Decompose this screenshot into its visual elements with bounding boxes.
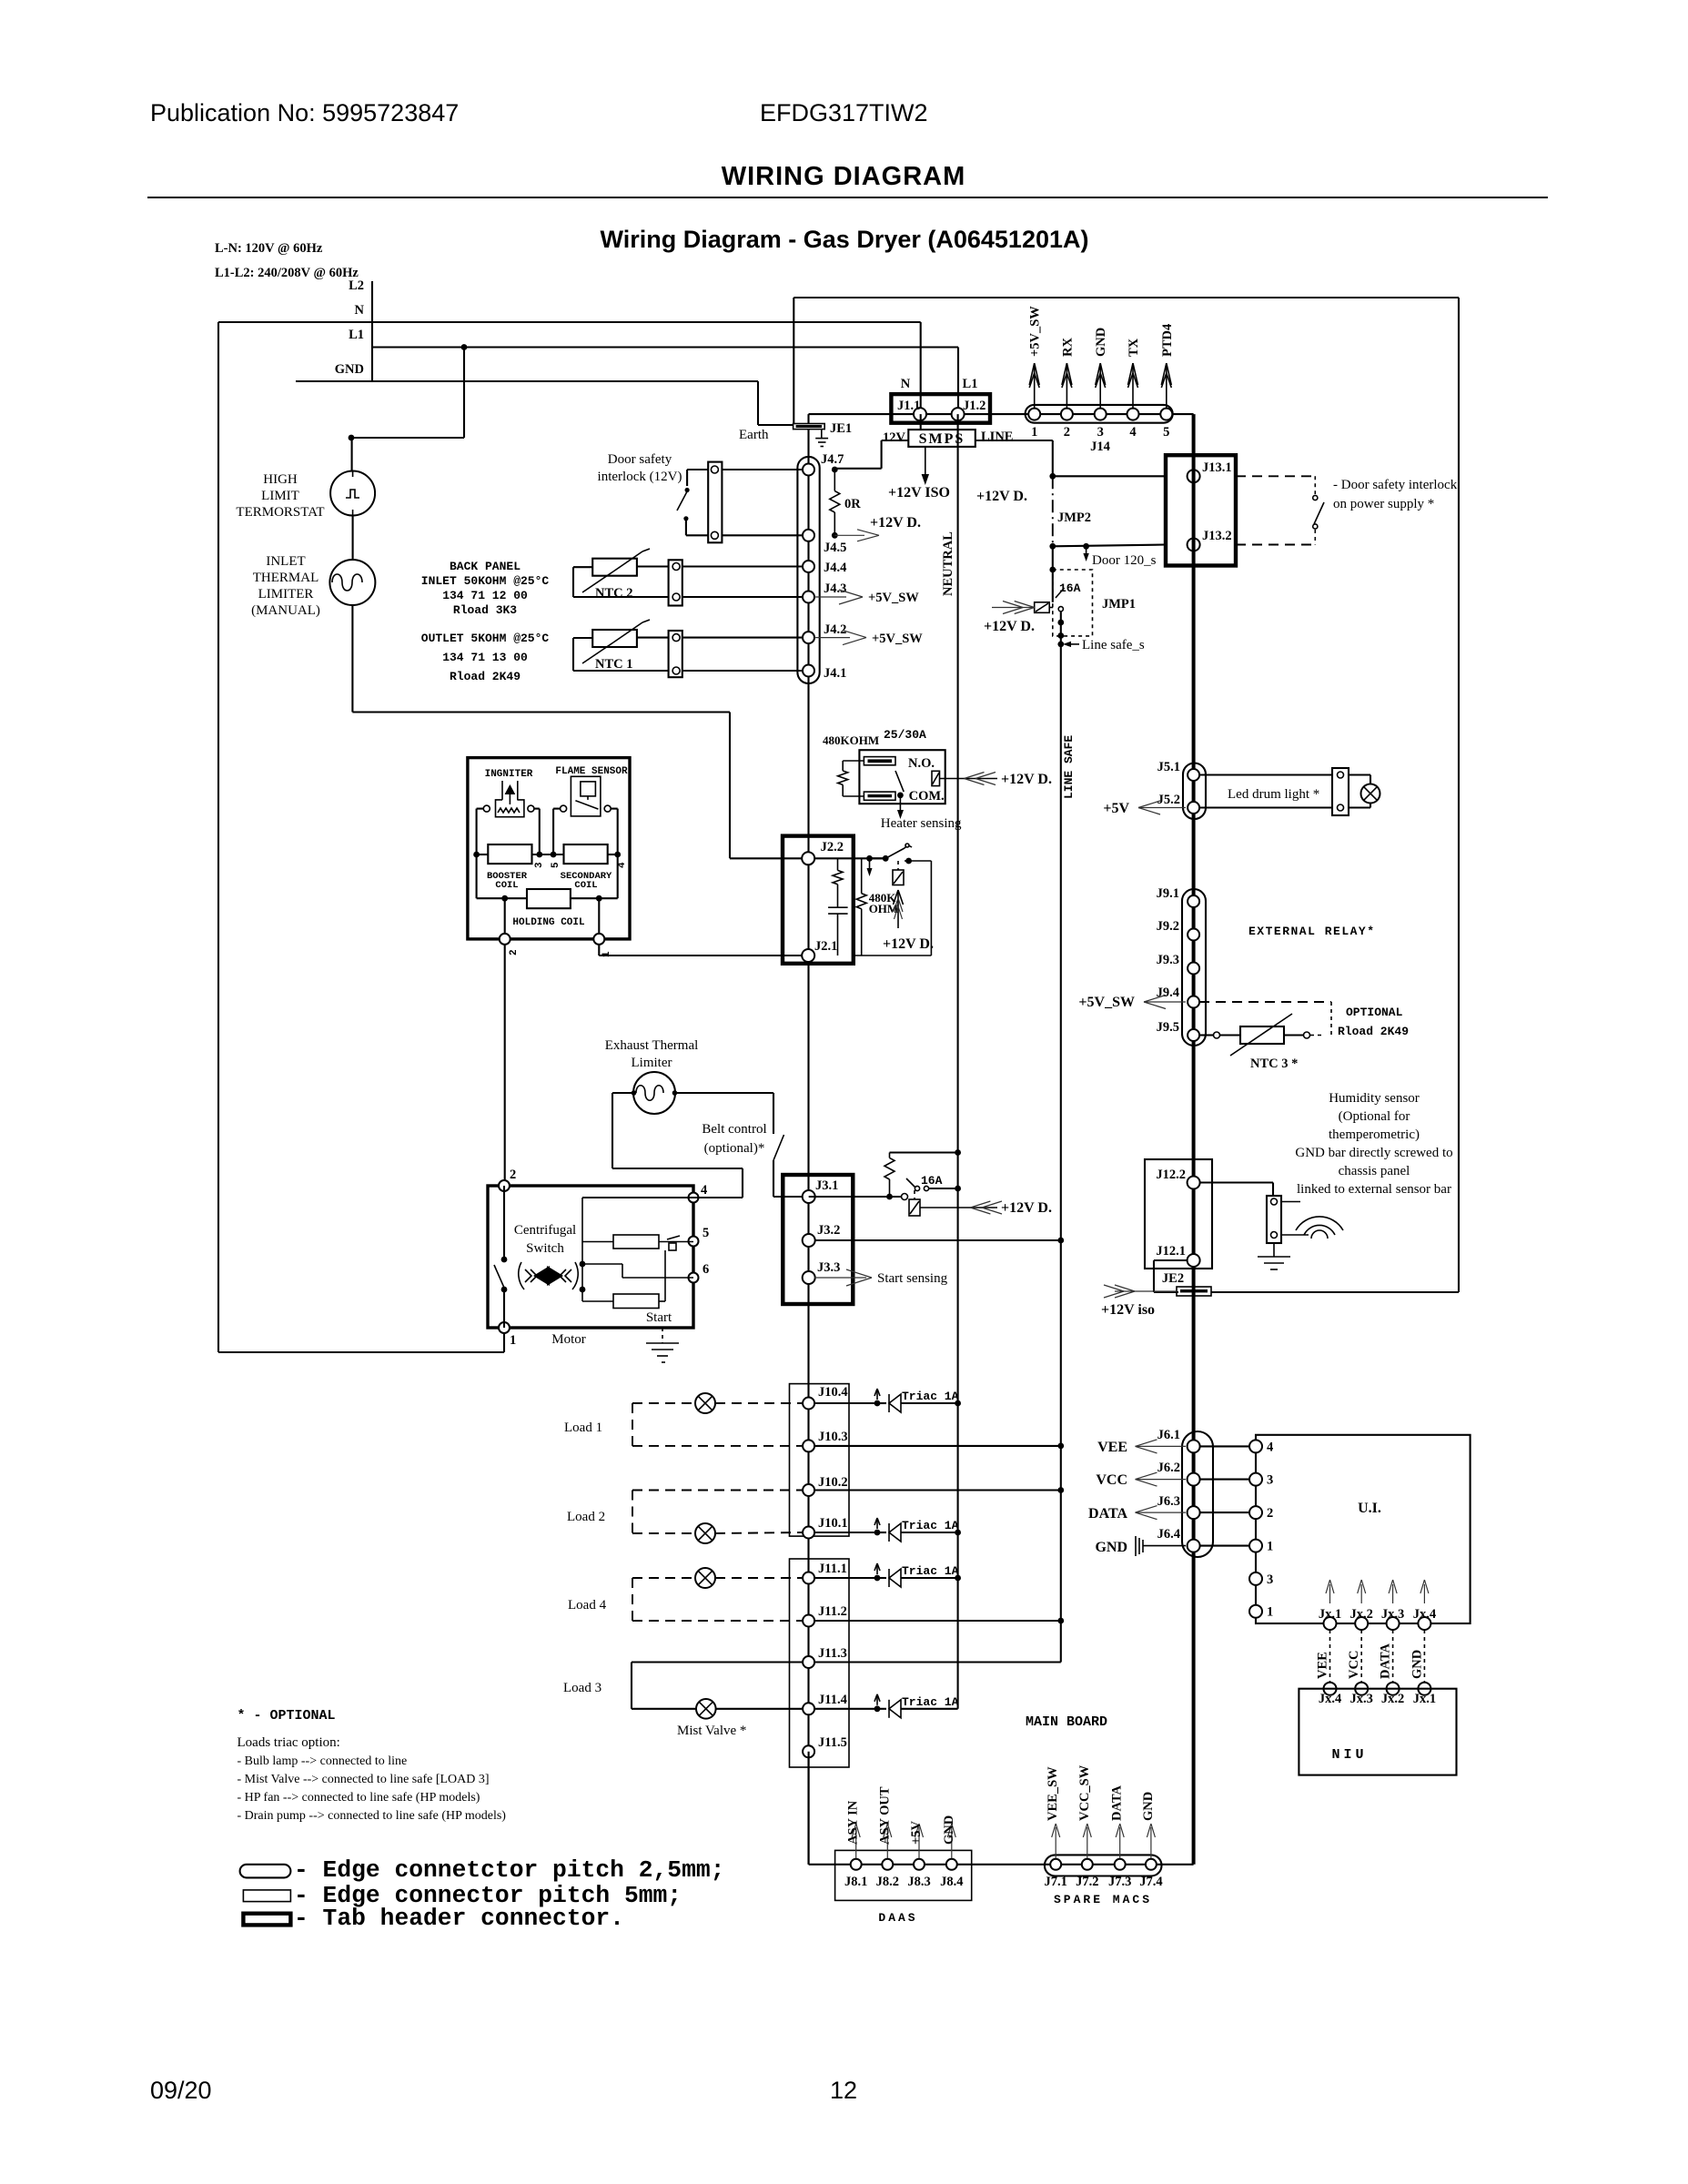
J2 internal RC snubber — [837, 858, 839, 870]
edge connector J10 box — [790, 1384, 850, 1537]
wire JMP2 to 16A fuse — [1052, 546, 1054, 602]
igniter internal wiring — [477, 808, 484, 810]
svg-text:L2: L2 — [349, 278, 364, 293]
triac 1A for load4 at J11.1 — [814, 1577, 877, 1579]
net arrow Start sensing — [814, 1277, 866, 1279]
svg-text:(MANUAL): (MANUAL) — [251, 603, 320, 618]
heater 480K resistor loop — [843, 760, 864, 762]
load 4 lamp loop — [632, 1577, 695, 1579]
svg-text:+5V_SW: +5V_SW — [1028, 306, 1043, 357]
svg-text:N.O.: N.O. — [908, 756, 935, 771]
wire J11.2 to LINE SAFE — [814, 1620, 1061, 1622]
wire J3.2 to LINE SAFE — [814, 1239, 1061, 1241]
svg-text:OPTIONAL: OPTIONAL — [1346, 1006, 1403, 1019]
svg-text:+5V: +5V — [1103, 801, 1129, 816]
igniter heater symbol — [501, 781, 503, 800]
load 1 lamp loop — [632, 1402, 695, 1404]
flame sensor symbol — [571, 776, 601, 816]
coil BOOSTER COIL — [488, 844, 531, 864]
lamp led drum light — [1349, 773, 1370, 775]
svg-text:Rload 3K3: Rload 3K3 — [453, 603, 517, 617]
svg-text:- Drain pump --> connected to: - Drain pump --> connected to line safe … — [238, 1809, 507, 1823]
motor start winding — [613, 1294, 659, 1309]
svg-text:J3.3: J3.3 — [817, 1260, 840, 1275]
svg-text:3: 3 — [1097, 425, 1104, 440]
svg-text:Start sensing: Start sensing — [877, 1271, 948, 1286]
svg-text:J9.2: J9.2 — [1157, 919, 1179, 934]
U.I. box — [1256, 1435, 1471, 1623]
motor pin 6 — [689, 1273, 699, 1283]
svg-text:GND bar directly screwed to: GND bar directly screwed to — [1295, 1146, 1452, 1160]
svg-text:Triac 1A: Triac 1A — [902, 1695, 959, 1709]
svg-text:16A: 16A — [921, 1174, 943, 1188]
svg-text:Rload 2K49: Rload 2K49 — [1338, 1025, 1409, 1038]
svg-text:ASY IN: ASY IN — [846, 1800, 861, 1845]
svg-text:Load 3: Load 3 — [563, 1681, 601, 1695]
main board outline top — [793, 297, 1459, 298]
legend edge connector 2.5mm symbol — [240, 1865, 291, 1878]
svg-text:VCC: VCC — [1096, 1472, 1127, 1488]
svg-text:COIL: COIL — [574, 880, 597, 891]
svg-text:LIMITER: LIMITER — [258, 587, 314, 602]
edge connector SPARE MACS J7 — [1045, 1855, 1162, 1876]
legend tab header symbol — [243, 1914, 290, 1926]
svg-text:4: 4 — [1129, 425, 1136, 440]
svg-text:Heater sensing: Heater sensing — [881, 816, 962, 831]
svg-text:(optional)*: (optional)* — [704, 1141, 765, 1156]
svg-text:Jx.3: Jx.3 — [1350, 1692, 1373, 1706]
svg-text:J2.2: J2.2 — [821, 840, 844, 854]
J14 signal arrows — [1034, 366, 1036, 408]
svg-text:L1-L2: 240/208V @ 60Hz: L1-L2: 240/208V @ 60Hz — [215, 266, 359, 280]
svg-text:GND: GND — [1141, 1792, 1156, 1821]
svg-text:Motor: Motor — [551, 1332, 586, 1347]
svg-text:+12V D.: +12V D. — [1001, 1200, 1052, 1216]
svg-text:linked to external sensor bar: linked to external sensor bar — [1297, 1182, 1451, 1197]
humidity sensor wiring — [1199, 1181, 1273, 1183]
motor internal wiring — [582, 1197, 693, 1198]
svg-text:Limiter: Limiter — [632, 1056, 672, 1070]
svg-text:J3.2: J3.2 — [817, 1223, 840, 1238]
svg-text:Earth: Earth — [739, 428, 769, 442]
svg-text:BACK PANEL: BACK PANEL — [450, 560, 521, 573]
svg-text:J12.2: J12.2 — [1156, 1168, 1186, 1182]
svg-text:2: 2 — [509, 949, 520, 955]
svg-text:Led drum light *: Led drum light * — [1228, 787, 1319, 802]
svg-text:+5V: +5V — [909, 1820, 924, 1845]
svg-text:Publication No: 5995723847: Publication No: 5995723847 — [150, 99, 459, 126]
svg-text:NTC 2: NTC 2 — [595, 586, 633, 601]
svg-text:L1: L1 — [349, 328, 364, 342]
svg-text:J4.5: J4.5 — [824, 541, 846, 555]
earth terminal JE1 — [793, 424, 825, 430]
NIU top pins — [1324, 1683, 1337, 1695]
motor box — [488, 1186, 693, 1328]
svg-text:INGNITER: INGNITER — [485, 769, 533, 780]
svg-text:J7.3: J7.3 — [1108, 1875, 1131, 1889]
svg-text:J4.4: J4.4 — [824, 561, 846, 575]
svg-text:Door 120_s: Door 120_s — [1092, 553, 1157, 568]
svg-text:J2.1: J2.1 — [814, 939, 837, 954]
svg-text:Load 2: Load 2 — [567, 1510, 605, 1524]
svg-text:J9.1: J9.1 — [1157, 886, 1179, 901]
svg-text:on power supply *: on power supply * — [1333, 497, 1434, 511]
relay coil at J3.1 — [914, 1190, 915, 1199]
edge connector J12 box — [1145, 1159, 1212, 1269]
svg-text:Triac 1A: Triac 1A — [902, 1390, 959, 1403]
load 3 mist valve loop — [632, 1661, 803, 1663]
svg-text:Mist Valve *: Mist Valve * — [677, 1724, 746, 1738]
earth terminal JE2 — [1177, 1287, 1211, 1296]
svg-text:1: 1 — [510, 1333, 516, 1348]
svg-text:+5V_SW: +5V_SW — [1078, 995, 1135, 1010]
label 480K arrow tick — [869, 858, 871, 872]
svg-text:J10.2: J10.2 — [818, 1475, 848, 1490]
svg-text:134 71 13 00: 134 71 13 00 — [442, 651, 528, 664]
svg-text:J11.2: J11.2 — [818, 1604, 847, 1619]
arrow +12V D. to heater coil — [940, 778, 998, 780]
svg-text:NTC 1: NTC 1 — [595, 657, 633, 672]
connector DAAS box — [835, 1850, 972, 1900]
svg-text:J13.2: J13.2 — [1202, 529, 1232, 543]
svg-text:DATA: DATA — [1379, 1643, 1393, 1679]
triac 1A for load2 at J10.1 — [814, 1532, 877, 1533]
wire N drop to J1.1 — [920, 322, 922, 414]
svg-text:HOLDING COIL: HOLDING COIL — [512, 917, 585, 928]
svg-text:- Edge connetctor pitch 2,5mm: - Edge connetctor pitch 2,5mm; — [294, 1856, 724, 1884]
svg-text:Jx.1: Jx.1 — [1413, 1692, 1436, 1706]
wire igniter pin2 to motor pin2 — [504, 945, 506, 1186]
wire N horizontal — [218, 321, 921, 323]
header rule — [147, 197, 1548, 198]
wire L1 drop to thermostat — [463, 348, 465, 439]
svg-text:Centrifugal: Centrifugal — [514, 1223, 576, 1238]
svg-text:J11.5: J11.5 — [818, 1735, 847, 1750]
motor tap to pin6 — [582, 1263, 622, 1265]
svg-text:25/30A: 25/30A — [884, 728, 926, 742]
tab header connector J1 — [891, 394, 990, 423]
gas valve assembly box — [468, 758, 630, 939]
svg-text:J7.1: J7.1 — [1045, 1875, 1067, 1889]
svg-text:N: N — [355, 303, 365, 318]
heater relay switch — [895, 771, 904, 792]
wire NTC2 to J4.4 — [682, 565, 804, 567]
switch 16A line-safe — [1056, 588, 1065, 598]
svg-text:+12V D.: +12V D. — [870, 515, 921, 531]
svg-text:NEUTRAL: NEUTRAL — [941, 531, 955, 596]
svg-text:JMP2: JMP2 — [1057, 511, 1091, 525]
wire J12.1 to JE2 — [1154, 1259, 1188, 1261]
svg-text:3: 3 — [1267, 1473, 1273, 1488]
svg-text:J4.2: J4.2 — [824, 622, 846, 637]
wire NTC1 to J4.2 — [682, 637, 804, 639]
svg-text:- Door safety interlock: - Door safety interlock — [1333, 478, 1458, 492]
svg-text:Wiring Diagram - Gas Dryer (A0: Wiring Diagram - Gas Dryer (A06451201A) — [601, 226, 1089, 253]
ground symbol below JE1 — [821, 430, 823, 439]
svg-text:3: 3 — [1267, 1572, 1273, 1587]
net arrow +5V_SW at J4.2 — [814, 637, 850, 639]
triac 1A for mist valve at J11.4 — [814, 1708, 877, 1710]
node Line safe_s — [1057, 642, 1064, 648]
svg-text:Jx.2: Jx.2 — [1381, 1692, 1404, 1706]
jumper JMP1 dashed box — [1053, 570, 1093, 636]
wire L1 horizontal — [372, 346, 958, 348]
centrifugal switch symbol — [533, 1266, 550, 1286]
svg-text:J10.4: J10.4 — [818, 1385, 848, 1400]
svg-text:+12V iso: +12V iso — [1101, 1302, 1155, 1318]
svg-text:2: 2 — [510, 1168, 516, 1182]
wire J11.5 to bottom bus — [808, 1752, 810, 1865]
svg-text:Rload 2K49: Rload 2K49 — [450, 670, 521, 683]
16A breaker at J3.1 — [809, 1196, 901, 1198]
tab header connector J3 — [783, 1175, 853, 1304]
net arrow VEE at J6.1 — [1136, 1440, 1157, 1447]
svg-text:16A: 16A — [1059, 581, 1081, 595]
svg-text:Humidity sensor: Humidity sensor — [1329, 1091, 1420, 1106]
wire SMPS 12V to J4.7 — [834, 468, 881, 470]
svg-text:GND: GND — [942, 1815, 956, 1845]
svg-text:J1.1: J1.1 — [897, 399, 920, 413]
thermal limiter exhaust symbol — [633, 1072, 675, 1114]
thermal limiter INLET symbol — [329, 560, 375, 605]
svg-text:4: 4 — [1267, 1440, 1273, 1454]
svg-text:COIL: COIL — [495, 880, 518, 891]
svg-text:NIU: NIU — [1331, 1747, 1367, 1763]
svg-text:1: 1 — [1267, 1605, 1273, 1620]
heater sensing arrow — [899, 795, 901, 814]
triac 1A for load1 at J10.4 — [814, 1402, 877, 1404]
NTC1 connector — [669, 631, 682, 677]
svg-text:Exhaust Thermal: Exhaust Thermal — [605, 1038, 699, 1053]
coil HOLDING COIL — [527, 889, 571, 908]
ground GND at J6.4 — [1143, 1545, 1186, 1547]
svg-text:Jx.1: Jx.1 — [1319, 1607, 1341, 1622]
jumper JMP2 dash-dot — [1052, 476, 1054, 546]
svg-text:RX: RX — [1060, 338, 1075, 357]
DAAS signal arrows — [855, 1827, 857, 1858]
svg-text:L-N: 120V @ 60Hz: L-N: 120V @ 60Hz — [215, 241, 323, 256]
edge connector J14 — [1026, 405, 1173, 423]
svg-text:MAIN BOARD: MAIN BOARD — [1026, 1714, 1107, 1730]
svg-text:EFDG317TIW2: EFDG317TIW2 — [760, 99, 928, 126]
led drum light connector — [1332, 768, 1349, 815]
svg-text:J14: J14 — [1090, 440, 1110, 454]
svg-text:J9.4: J9.4 — [1157, 986, 1179, 1000]
svg-text:J11.4: J11.4 — [818, 1693, 847, 1707]
svg-text:Switch: Switch — [526, 1241, 564, 1256]
svg-text:4: 4 — [701, 1183, 707, 1198]
node L1 junction — [461, 344, 468, 350]
wire main bus through J1 and J14 — [809, 413, 1194, 415]
svg-text:6: 6 — [702, 1262, 709, 1277]
U.I. bottom pins Jx — [1324, 1617, 1337, 1630]
svg-text:GND: GND — [1410, 1650, 1424, 1679]
humidity sensor arcs — [1296, 1217, 1343, 1230]
thermistor NTC2 — [592, 559, 637, 576]
edge connector J9 — [1182, 889, 1206, 1046]
svg-text:+12V D.: +12V D. — [976, 489, 1027, 504]
svg-text:- Tab header connector.: - Tab header connector. — [294, 1905, 624, 1932]
svg-text:J11.1: J11.1 — [818, 1562, 847, 1576]
wire J1.1 stub into SMPS — [920, 414, 922, 430]
tab header connector J13 — [1166, 455, 1236, 565]
edge connector J6 — [1182, 1431, 1213, 1557]
svg-text:Jx.2: Jx.2 — [1350, 1607, 1373, 1622]
svg-text:J10.1: J10.1 — [818, 1516, 848, 1531]
heater relay box — [859, 750, 945, 804]
wire LINE from SMPS — [975, 440, 1053, 441]
net arrow VCC at J6.2 — [1136, 1472, 1157, 1480]
wire LINE SAFE vertical — [1060, 611, 1062, 1663]
belt loop right side — [675, 1092, 774, 1094]
svg-text:J10.3: J10.3 — [818, 1430, 848, 1444]
NTC2 connector — [669, 560, 682, 605]
svg-text:Load 1: Load 1 — [564, 1421, 602, 1435]
svg-text:FLAME SENSOR: FLAME SENSOR — [555, 766, 628, 777]
heater contact COM — [864, 792, 895, 800]
svg-text:Jx.4: Jx.4 — [1319, 1692, 1341, 1706]
svg-text:J9.3: J9.3 — [1157, 953, 1179, 967]
wire J10.3 to LINE SAFE — [814, 1445, 1061, 1447]
motor start switch — [501, 1257, 508, 1263]
net arrow DATA at J6.3 — [1136, 1506, 1157, 1513]
wire L2 vertical — [371, 281, 373, 381]
svg-text:JMP1: JMP1 — [1102, 597, 1136, 612]
motor pin 2 — [499, 1180, 510, 1191]
svg-text:J11.3: J11.3 — [818, 1646, 847, 1661]
net arrow +5V_SW at J4.3 — [814, 596, 846, 598]
svg-text:J4.1: J4.1 — [824, 666, 846, 681]
wires J6 to U.I. — [1199, 1445, 1249, 1447]
svg-text:J6.2: J6.2 — [1157, 1461, 1180, 1475]
wire left trunk to motor pin1 — [217, 322, 219, 1352]
svg-text:ASY OUT: ASY OUT — [877, 1786, 892, 1845]
coil SECONDARY COIL — [564, 844, 608, 864]
svg-text:VEE: VEE — [1316, 1652, 1330, 1679]
svg-text:VCC: VCC — [1347, 1651, 1361, 1679]
svg-text:+5V_SW: +5V_SW — [872, 632, 923, 646]
svg-text:J3.1: J3.1 — [815, 1178, 838, 1193]
J2 flame switch circuit — [814, 857, 885, 859]
wire J2.2 from igniter side — [870, 857, 886, 859]
motor pin 4 — [689, 1193, 699, 1203]
load 2 lamp loop — [632, 1490, 803, 1491]
svg-text:1: 1 — [1031, 425, 1037, 440]
svg-text:TX: TX — [1127, 338, 1141, 357]
svg-text:2: 2 — [1267, 1506, 1273, 1521]
svg-text:Jx.3: Jx.3 — [1381, 1607, 1404, 1622]
power supply SMPS — [908, 430, 975, 447]
svg-text:chassis panel: chassis panel — [1339, 1164, 1410, 1178]
humidity sensor connector — [1267, 1196, 1281, 1243]
dashed links U.I. to NIU — [1329, 1630, 1331, 1683]
door interlock switch — [687, 469, 708, 470]
svg-text:LIMIT: LIMIT — [261, 489, 299, 503]
node LINE junction — [1049, 473, 1056, 480]
svg-text:+5V_SW: +5V_SW — [868, 591, 919, 605]
node junction above thermostat — [349, 435, 355, 441]
svg-text:SPARE MACS: SPARE MACS — [1054, 1893, 1152, 1906]
svg-text:J7.4: J7.4 — [1139, 1875, 1162, 1889]
svg-text:+12V D.: +12V D. — [1001, 772, 1052, 787]
heater contact N.O. — [864, 757, 895, 765]
svg-text:+12V ISO: +12V ISO — [888, 485, 950, 500]
svg-text:* - OPTIONAL: * - OPTIONAL — [238, 1708, 336, 1724]
net arrow +12V D. at J4.5 — [834, 534, 864, 536]
svg-text:09/20: 09/20 — [150, 2077, 212, 2104]
svg-text:0R: 0R — [844, 497, 861, 511]
svg-text:NTC 3 *: NTC 3 * — [1250, 1057, 1298, 1071]
svg-text:3: 3 — [534, 862, 545, 868]
svg-text:GND: GND — [335, 362, 364, 377]
arrow +12V ISO from SMPS — [925, 447, 926, 479]
main board outline left — [793, 298, 794, 424]
svg-text:12V: 12V — [883, 430, 906, 445]
svg-text:+12V D.: +12V D. — [984, 619, 1035, 634]
main board outline bottom — [1211, 1291, 1459, 1293]
svg-text:J6.4: J6.4 — [1157, 1527, 1180, 1542]
wire right trunk (thick) — [1192, 414, 1196, 1865]
wire NTC1 to J4.1 — [682, 670, 804, 672]
svg-text:WIRING DIAGRAM: WIRING DIAGRAM — [722, 162, 966, 191]
svg-text:INLET: INLET — [266, 554, 305, 569]
svg-text:134 71 12 00: 134 71 12 00 — [442, 589, 528, 602]
svg-text:GND: GND — [1095, 1540, 1127, 1555]
svg-text:OUTLET 5KOHM @25°C: OUTLET 5KOHM @25°C — [421, 632, 550, 645]
svg-text:J5.2: J5.2 — [1157, 793, 1180, 807]
svg-text:DATA: DATA — [1110, 1785, 1125, 1821]
ground symbol humidity sensor — [1273, 1243, 1275, 1257]
svg-text:12: 12 — [830, 2077, 857, 2104]
svg-text:(Optional for: (Optional for — [1339, 1109, 1410, 1124]
svg-text:U.I.: U.I. — [1358, 1501, 1381, 1516]
svg-text:JE1: JE1 — [830, 421, 852, 436]
optional Rload dashed bracket — [1199, 1001, 1331, 1003]
wire trunk JE1 down to bottom bus — [807, 430, 809, 1865]
wire door interlock to J4.5 — [722, 534, 804, 536]
thermostat HIGH LIMIT symbol — [330, 471, 375, 516]
door interlock connector — [708, 462, 722, 543]
svg-text:J7.2: J7.2 — [1076, 1875, 1098, 1889]
door interlock on power supply dashed — [1236, 475, 1315, 477]
svg-text:J8.4: J8.4 — [940, 1875, 963, 1889]
svg-text:J4.3: J4.3 — [824, 581, 846, 596]
wire to J13.1 — [1053, 475, 1166, 477]
belt control switch — [773, 1135, 784, 1160]
SPARE MACS signal arrows — [1055, 1827, 1056, 1858]
svg-text:PTD4: PTD4 — [1160, 324, 1175, 357]
arrow +12V D. into fuse — [992, 607, 1035, 609]
svg-text:2: 2 — [1064, 425, 1070, 440]
svg-text:L1: L1 — [963, 377, 978, 391]
led drum light wiring — [1199, 773, 1332, 775]
svg-text:GND: GND — [1094, 328, 1108, 357]
svg-text:VEE_SW: VEE_SW — [1046, 1766, 1060, 1821]
svg-text:Triac 1A: Triac 1A — [902, 1519, 959, 1532]
igniter node row — [477, 854, 489, 855]
svg-text:COM.: COM. — [909, 789, 945, 804]
node JMP2 bottom junction — [1049, 543, 1056, 550]
svg-text:- HP fan --> connected to line: - HP fan --> connected to line safe (HP … — [238, 1791, 480, 1805]
flame arrow symbol — [897, 890, 899, 928]
wire igniter pin1 to J2.1 — [598, 945, 600, 955]
svg-text:Jx.4: Jx.4 — [1413, 1607, 1436, 1622]
svg-text:J6.3: J6.3 — [1157, 1494, 1180, 1509]
wire J10.2 to LINE SAFE — [814, 1489, 1061, 1491]
U.I. left pins — [1249, 1440, 1262, 1452]
igniter lower wiring — [476, 854, 478, 898]
NIU box — [1299, 1689, 1456, 1775]
